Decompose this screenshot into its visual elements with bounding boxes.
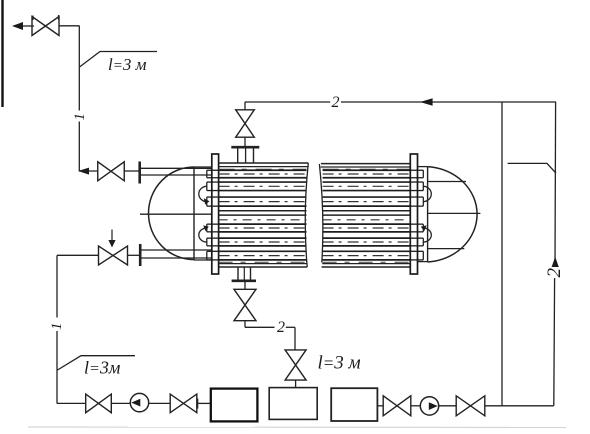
heat exchanger left head (bonnet) — [140, 167, 212, 260]
valve V5 (shell-side drain valve) — [234, 289, 256, 320]
U-bend tubes in right head — [421, 186, 432, 242]
svg-text:1: 1 — [49, 323, 65, 331]
wire: valve V8 to tank T1 — [197, 399, 211, 409]
svg-text:1: 1 — [72, 113, 88, 121]
pump P1 (circulation pump, flow left) — [130, 393, 148, 411]
node 2 label (drain branch) — [277, 319, 285, 336]
node 2 label (right riser) — [544, 268, 565, 278]
wire: left downcomer elbow to valve V3 — [57, 254, 99, 256]
wire: tank T3 to valve V9 — [377, 405, 383, 407]
valve V2 (exchanger tube-side outlet valve) — [98, 162, 125, 181]
shell section B (right) with tube bundle — [319, 164, 410, 267]
nozzle: exchanger left upper connection — [141, 168, 213, 175]
svg-text:2: 2 — [277, 319, 285, 336]
label: l=3 m (top-left) — [108, 55, 147, 74]
node 2 label (top header) — [332, 94, 340, 111]
wire: right riser (node 2) upper segment — [554, 102, 557, 267]
node 1 label (lower downcomer) — [49, 323, 65, 331]
tank T1 — [211, 389, 258, 422]
flange: left upper nozzle — [138, 162, 141, 184]
wire: downcomer to valve V7 — [57, 402, 86, 404]
flange: top nozzle — [231, 146, 259, 149]
arrow: flow arrow at riser elbow — [78, 168, 89, 175]
wire: valve V6 to tank T2 — [295, 380, 297, 388]
svg-text:l=3 м: l=3 м — [318, 353, 361, 374]
U-bend tubes in left head — [199, 186, 210, 242]
label: l=3 m (bottom-left) — [84, 358, 121, 378]
label leader: l=3 m (top-left) — [80, 52, 158, 68]
node 1 label (upper riser) — [72, 113, 88, 121]
flange: left lower nozzle — [139, 244, 142, 266]
tubesheet/flange right — [410, 154, 417, 274]
wire: pump P2 to valve V10 — [439, 405, 457, 407]
wire: valve V10 along bottom to right riser — [485, 405, 554, 407]
nozzle: shell-side top connection — [238, 148, 254, 163]
wire: valve V5 stem — [244, 282, 246, 328]
valve V9 (pump P2 suction valve) — [383, 396, 411, 416]
heat exchanger right head — [418, 167, 481, 262]
tank T2 — [269, 388, 317, 420]
nozzle: shell-side bottom connection — [238, 267, 251, 280]
valve V8 (pump P1 discharge valve) — [170, 394, 197, 413]
label: l=3 m (at valve V6) — [318, 353, 361, 374]
wire: left riser pipe (node 1, upper) — [78, 26, 80, 171]
nozzle: exchanger left lower connection — [141, 250, 212, 258]
tube ends in right head — [410, 170, 423, 260]
leader kink on right loop — [508, 163, 556, 173]
arrow: flow arrow on top header pointing left — [420, 98, 433, 106]
wire: valve V3 to nozzle flange — [128, 254, 141, 256]
arrow: control/flow arrow onto valve V3 — [108, 230, 115, 248]
tube ends in left head — [207, 170, 219, 260]
wire: valve V1 to riser elbow — [59, 25, 80, 27]
wire: inner right leg (return loop) — [501, 102, 503, 406]
wire: valve V4 up to return header — [245, 102, 330, 110]
flange: bottom nozzle — [232, 279, 256, 282]
valve V1 (top-left outlet valve) — [32, 15, 59, 36]
valve V3 (exchanger tube-side inlet valve) — [99, 246, 128, 265]
wire: elbow to valve V2 — [79, 170, 98, 172]
arrow: flow arrow on right riser pointing up — [552, 257, 559, 267]
shell section A (left) with tube bundle — [219, 163, 309, 267]
svg-text:2: 2 — [332, 94, 340, 111]
svg-text:2: 2 — [544, 268, 565, 278]
label leader: l=3 m (bottom-left) — [58, 356, 136, 370]
wire: left downcomer pipe (node 1, lower) — [56, 255, 58, 403]
svg-text:l=3м: l=3м — [84, 358, 121, 378]
svg-text:l=3 м: l=3 м — [108, 55, 147, 74]
tank T3 — [331, 388, 377, 421]
wire: valve V9 to pump P2 — [411, 405, 421, 407]
wire: valve V2 to nozzle flange — [124, 170, 139, 172]
arrow: outlet flow arrow pointing left — [12, 22, 34, 30]
wire: valve V7 to pump P1 — [111, 402, 131, 404]
valve V4 (shell-side vent valve, top) — [236, 110, 255, 137]
valve V10 (pump P2 discharge valve) — [456, 396, 485, 416]
wire: top return header (node 2) to right leg — [341, 101, 556, 103]
valve V6 (condensate valve to tank T2) — [285, 350, 306, 380]
wire: drain run to elbow (node 2 branch) — [245, 327, 295, 350]
tubesheet/flange left — [212, 154, 219, 274]
wire: pump P1 to valve V8 — [149, 402, 171, 404]
wire: right riser lower segment — [553, 278, 556, 406]
pump P2 (return pump, flow right) — [420, 397, 438, 415]
valve V7 (pump P1 suction valve) — [86, 394, 112, 413]
wire: valve V4 stem to top flange — [244, 137, 246, 146]
